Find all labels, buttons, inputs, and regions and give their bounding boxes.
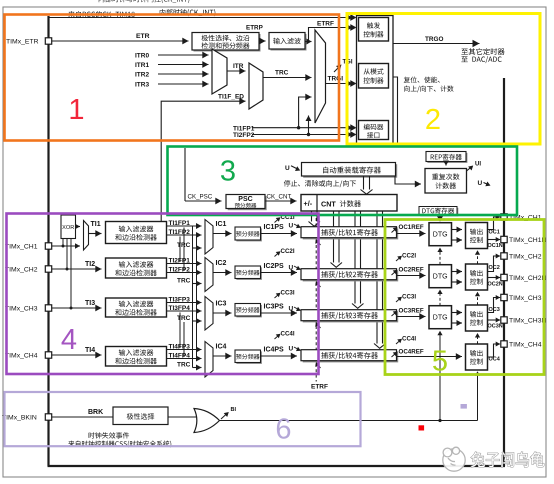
wire TI4FP3 bbox=[167, 349, 202, 351]
block capture/compare register 2 bbox=[303, 270, 399, 281]
wire TI3 from pin bbox=[52, 307, 102, 309]
wire TI2FP2 bbox=[167, 272, 202, 274]
bus CNT to CC3 open arrow bbox=[354, 211, 356, 304]
block encoder interface bbox=[359, 121, 389, 140]
arrows DTG1 to octrl1 bbox=[452, 229, 463, 231]
wire TI2FP2 to encoder bbox=[252, 134, 353, 136]
wire TRC vertical bus bbox=[192, 226, 194, 368]
svg-text:PSC: PSC bbox=[238, 196, 252, 203]
svg-text:U: U bbox=[285, 165, 290, 172]
svg-text:TRC: TRC bbox=[275, 70, 289, 77]
wire TI2 from pin bbox=[52, 268, 102, 270]
wire ITR out bbox=[227, 70, 246, 72]
pin TIMx_CH3 right bbox=[501, 294, 507, 300]
label clock failure bbox=[89, 432, 130, 438]
label stop clear updown bbox=[284, 180, 356, 187]
block output control 3 bbox=[466, 305, 488, 331]
block repetition counter bbox=[425, 169, 467, 194]
svg-text:TI4: TI4 bbox=[85, 347, 95, 354]
svg-text:BRK: BRK bbox=[88, 409, 103, 416]
label TGI bbox=[334, 66, 341, 73]
arrow TI1FP1 into encoder bbox=[350, 124, 356, 131]
svg-text:OC3REF: OC3REF bbox=[399, 308, 424, 315]
wire TI2FP2 riser to TRGI mux bbox=[308, 116, 310, 135]
wire CK_PSC drop bbox=[184, 148, 186, 201]
wire TI4 from pin bbox=[52, 354, 102, 356]
wire ETRP bbox=[259, 40, 266, 42]
svg-text:TIMx_CH1N: TIMx_CH1N bbox=[509, 237, 546, 244]
label CSS source bbox=[68, 440, 171, 447]
wire ITR1 bbox=[158, 64, 209, 66]
mux IC2 select bbox=[205, 258, 213, 292]
svg-text:TIMx_CH3N: TIMx_CH3N bbox=[509, 318, 546, 325]
mux IC3 select bbox=[205, 297, 213, 331]
svg-text:IC1: IC1 bbox=[216, 221, 227, 228]
label 内部时钟(CK_INT) bbox=[160, 9, 216, 16]
svg-text:IC4: IC4 bbox=[216, 344, 227, 351]
block capture/compare register 4 bbox=[303, 351, 399, 362]
svg-text:ITR1: ITR1 bbox=[135, 62, 149, 69]
svg-text:IC2: IC2 bbox=[216, 260, 227, 267]
wire IC3 bbox=[213, 312, 232, 314]
svg-text:5: 5 bbox=[432, 345, 448, 377]
svg-text:TIMx_CH4: TIMx_CH4 bbox=[509, 342, 542, 349]
svg-text:XOR: XOR bbox=[62, 225, 74, 231]
wire CK_CNT bbox=[265, 200, 297, 202]
svg-text:TIMx_CH4: TIMx_CH4 bbox=[5, 353, 38, 360]
svg-text:DTG: DTG bbox=[433, 274, 448, 281]
svg-text:IC4PS: IC4PS bbox=[264, 346, 285, 353]
svg-text:TI2FP2: TI2FP2 bbox=[233, 132, 255, 139]
svg-text:U: U bbox=[478, 180, 483, 187]
bus CNT to CC1 open arrow bbox=[311, 211, 313, 222]
node CK_INT wire from RCC bbox=[49, 17, 353, 19]
svg-text:TRC: TRC bbox=[177, 315, 191, 322]
wire TI2FP1 bbox=[167, 263, 202, 265]
wire CH1 to mux bbox=[52, 245, 80, 247]
wire BI to DTG column bbox=[439, 334, 441, 421]
wire ETRF up to trigger ctrl bbox=[305, 28, 353, 42]
svg-text:ETR: ETR bbox=[136, 33, 150, 40]
wire OC4REF bbox=[397, 356, 463, 358]
pin TIMx_CH4 bbox=[45, 352, 51, 358]
svg-text:OC2: OC2 bbox=[489, 265, 500, 271]
svg-text:3: 3 bbox=[220, 155, 236, 187]
mux TRGI select bbox=[315, 30, 326, 123]
block input filter TI3 bbox=[106, 298, 167, 317]
mux ITR select bbox=[212, 49, 227, 94]
wire FP crossover row3-4 bbox=[179, 313, 181, 349]
arrow TRGI into slave controller bbox=[350, 80, 356, 87]
svg-text:ITR: ITR bbox=[233, 63, 244, 70]
block prescaler IC2 bbox=[236, 267, 262, 280]
block XOR bbox=[61, 215, 76, 239]
red mark bbox=[419, 425, 425, 430]
pin TIMx_CH4 right bbox=[501, 341, 507, 347]
wire IC4 bbox=[213, 355, 232, 357]
svg-text:CC3I: CC3I bbox=[281, 290, 295, 297]
arrows DTG3 to octrl3 bbox=[452, 312, 463, 314]
wire IC2 bbox=[213, 272, 232, 274]
region box 4 purple bbox=[7, 214, 319, 375]
wire TI1FP1 bbox=[167, 225, 202, 227]
svg-text:TIMx_CH3: TIMx_CH3 bbox=[5, 306, 38, 313]
arrow compare event 2 bbox=[317, 283, 321, 288]
wire - left pin rail bbox=[47, 16, 49, 466]
wire IC1 bbox=[213, 233, 232, 235]
svg-text:OC1: OC1 bbox=[489, 230, 500, 236]
wire TI1FP2 bbox=[167, 234, 202, 236]
svg-text:TIMx_CH2: TIMx_CH2 bbox=[5, 267, 38, 274]
block CNT counter bbox=[301, 195, 397, 212]
block prescaler IC1 bbox=[236, 228, 262, 241]
wire OC4 bbox=[488, 344, 501, 357]
block DTG3 bbox=[429, 306, 452, 329]
svg-text:IC2PS: IC2PS bbox=[264, 263, 285, 270]
block PSC prescaler bbox=[228, 196, 267, 210]
svg-text:DTG: DTG bbox=[433, 315, 448, 322]
block input filter TI1 bbox=[106, 222, 167, 244]
wire REP down bbox=[445, 162, 447, 166]
gate OR break bbox=[194, 409, 220, 433]
svg-text:TI2: TI2 bbox=[85, 261, 95, 268]
svg-text:TIMx_ETR: TIMx_ETR bbox=[6, 39, 39, 46]
svg-text:ITR2: ITR2 bbox=[135, 72, 149, 79]
clipped top caption bbox=[99, 0, 190, 3]
svg-text:TIMx_CH3: TIMx_CH3 bbox=[509, 295, 542, 302]
svg-text:ETRP: ETRP bbox=[246, 25, 263, 32]
arrow compare event 1 bbox=[317, 241, 321, 246]
wire IC2PS bbox=[261, 272, 298, 274]
region box 6 lavender bbox=[5, 392, 361, 446]
svg-text:IC3: IC3 bbox=[216, 301, 227, 308]
svg-text:OC3N: OC3N bbox=[488, 324, 503, 330]
lavender mark bbox=[461, 404, 467, 409]
wire OC3 bbox=[488, 298, 501, 313]
pin TIMx_CH2 right bbox=[501, 253, 507, 259]
wire OC1N bbox=[488, 239, 501, 241]
wire ETRF dashed drop bbox=[315, 218, 317, 382]
svg-text:DTG: DTG bbox=[433, 232, 448, 239]
svg-text:OC2REF: OC2REF bbox=[399, 267, 424, 274]
mux TRC select bbox=[249, 63, 263, 109]
block trigger controller bbox=[359, 18, 389, 42]
svg-text:ETRF: ETRF bbox=[311, 384, 328, 391]
block input filter TI2 bbox=[106, 258, 167, 278]
svg-text:1: 1 bbox=[68, 94, 84, 126]
wire - bottom border bbox=[48, 465, 506, 467]
block prescaler IC3 bbox=[236, 305, 262, 318]
svg-text:UI: UI bbox=[475, 162, 481, 168]
svg-text:TRGO: TRGO bbox=[425, 36, 443, 43]
mux IC1 select bbox=[205, 220, 213, 255]
wire IC4PS bbox=[261, 355, 298, 357]
wire TI3FP4 bbox=[167, 310, 202, 312]
svg-text:CK_CNT: CK_CNT bbox=[267, 194, 292, 201]
arrows DTG2 to octrl2 bbox=[452, 271, 463, 273]
block output control 2 bbox=[466, 264, 488, 290]
wire FP vertical bus bbox=[196, 235, 198, 359]
arrow TI2FP2 into encoder bbox=[350, 131, 356, 138]
svg-text:CC4I: CC4I bbox=[281, 331, 295, 338]
svg-text:OC1N: OC1N bbox=[488, 243, 503, 249]
block input filter ETR bbox=[271, 34, 307, 51]
svg-text:TIMx_CH2: TIMx_CH2 bbox=[509, 254, 542, 261]
svg-text:CC2I: CC2I bbox=[281, 248, 295, 255]
block output control 1 bbox=[466, 223, 488, 249]
wire XOR out bbox=[76, 226, 81, 228]
pin TIMx_CH2N right bbox=[501, 274, 507, 280]
block DTG1 bbox=[429, 223, 452, 246]
wire OC2N bbox=[488, 277, 501, 279]
wire TI1 bbox=[89, 233, 102, 235]
block DTG register bbox=[420, 208, 458, 217]
svg-text:OC4REF: OC4REF bbox=[399, 349, 424, 356]
wire OC2 bbox=[488, 256, 501, 272]
svg-text:OC3: OC3 bbox=[489, 307, 500, 313]
controller column bbox=[357, 16, 394, 144]
wire ARR to repetition counter bbox=[395, 176, 421, 185]
wire ITR3 bbox=[158, 83, 209, 85]
wire TRGI to slave ctrl bbox=[326, 83, 353, 85]
svg-text:TIMx_CH2N: TIMx_CH2N bbox=[509, 275, 546, 282]
wire TI1FP1 to encoder bbox=[252, 127, 353, 129]
wire IC1PS bbox=[261, 233, 298, 235]
svg-text:OC2N: OC2N bbox=[488, 281, 503, 287]
label to other timers bbox=[461, 48, 504, 55]
wire OC1REF bbox=[397, 233, 426, 235]
label reset enable updown bbox=[404, 77, 440, 83]
pin TIMx_ETR bbox=[45, 38, 51, 44]
wire CK_PSC bbox=[185, 200, 222, 202]
wire slave ctrl bracket bbox=[393, 77, 398, 144]
svg-text:ITR3: ITR3 bbox=[135, 82, 149, 89]
svg-text:CK_PSC: CK_PSC bbox=[188, 194, 213, 201]
wire OC1 bbox=[488, 217, 501, 230]
block auto-reload register bbox=[303, 164, 397, 178]
svg-text:U: U bbox=[289, 306, 294, 313]
svg-text:TRGI: TRGI bbox=[328, 76, 344, 83]
wire TI1F_ED bbox=[161, 101, 245, 221]
block capture/compare register 1 bbox=[303, 228, 399, 239]
wire BRK bbox=[52, 416, 113, 418]
arrow CK_INT into trigger controller bbox=[350, 14, 356, 21]
svg-text:TIMx_BKIN: TIMx_BKIN bbox=[2, 415, 37, 422]
svg-text:2: 2 bbox=[425, 104, 441, 136]
wire OC2REF bbox=[397, 275, 426, 277]
svg-text:CNT: CNT bbox=[321, 199, 336, 208]
block output control 4 bbox=[466, 344, 488, 370]
block REP register bbox=[427, 153, 467, 163]
svg-text:OC1REF: OC1REF bbox=[399, 224, 424, 231]
block polarity/edge detector bbox=[194, 34, 261, 52]
pin TIMx_CH3N right bbox=[501, 317, 507, 323]
wire TI3FP3 bbox=[167, 302, 202, 304]
watermark text bbox=[471, 452, 544, 467]
pin TIMx_CH1 bbox=[45, 243, 51, 249]
pin TIMx_CH1 right bbox=[501, 214, 507, 220]
mux TI1 select bbox=[84, 221, 89, 251]
wire OC3REF bbox=[397, 316, 426, 318]
arrow compare event 3 bbox=[317, 324, 321, 329]
mux IC4 select bbox=[205, 342, 213, 378]
wire TRGO bbox=[393, 43, 480, 45]
wire TRC row2 bbox=[193, 283, 202, 285]
wire BI bus bbox=[220, 420, 478, 422]
bus CNT to CC2 open arrow bbox=[333, 211, 335, 263]
label UI event bbox=[467, 167, 472, 171]
watermark logo bbox=[443, 447, 465, 471]
wire TRC row3 bbox=[193, 320, 202, 322]
pin TIMx_CH1N right bbox=[501, 236, 507, 242]
svg-text:TRC: TRC bbox=[177, 362, 191, 369]
block DTG2 bbox=[429, 265, 452, 288]
dashed octrl column links bbox=[477, 253, 479, 265]
wire - right pin rail bbox=[503, 78, 505, 466]
block prescaler IC4 bbox=[236, 351, 262, 364]
pin TIMx_CH2 bbox=[45, 266, 51, 272]
label BI bbox=[221, 414, 227, 420]
svg-text:U: U bbox=[289, 346, 294, 353]
wire to OR gate bbox=[168, 416, 196, 418]
svg-text:ETRF: ETRF bbox=[317, 21, 334, 28]
svg-text:IC3PS: IC3PS bbox=[264, 303, 285, 310]
svg-text:+/-: +/- bbox=[304, 199, 313, 208]
arrow ETRF into trigger controller bbox=[350, 24, 356, 31]
wire DTG register down bbox=[439, 215, 441, 221]
svg-text:6: 6 bbox=[275, 414, 291, 446]
svg-text:TI3: TI3 bbox=[85, 300, 95, 307]
arrow compare event 4 bbox=[317, 364, 321, 369]
bus CNT to CC4 open arrow bbox=[376, 211, 378, 344]
wire ITR0 bbox=[158, 54, 209, 56]
svg-text:TRC: TRC bbox=[177, 278, 191, 285]
svg-text:IC1PS: IC1PS bbox=[264, 224, 285, 231]
label to DAC/ADC bbox=[461, 56, 501, 63]
svg-text:U: U bbox=[289, 265, 294, 272]
svg-text:CC4I: CC4I bbox=[402, 336, 416, 343]
region box 3 green bbox=[168, 147, 518, 216]
wire TRC row4 bbox=[193, 367, 202, 369]
wire FP crossover row1-2 bbox=[179, 237, 181, 263]
wire XOR taps bbox=[62, 239, 64, 247]
region box 5 yellow-green bbox=[385, 220, 544, 375]
wire BI to octrl column bbox=[477, 373, 479, 421]
block polarity select BRK bbox=[113, 407, 168, 425]
svg-text:CC3I: CC3I bbox=[402, 294, 416, 301]
wire TI1FP1 riser to TRGI mux bbox=[299, 97, 312, 128]
wire IC3PS bbox=[261, 312, 298, 314]
svg-text:BI: BI bbox=[231, 407, 237, 413]
wire OC3N bbox=[488, 319, 501, 321]
wire ETR bbox=[52, 40, 189, 42]
svg-text:ITR0: ITR0 bbox=[135, 53, 149, 60]
wire TI4FP4 bbox=[167, 358, 202, 360]
svg-text:U: U bbox=[289, 223, 294, 230]
block input filter TI4 bbox=[106, 347, 167, 367]
region box 1 orange bbox=[5, 15, 340, 141]
svg-text:OC4: OC4 bbox=[489, 357, 501, 363]
svg-text:TIMx_CH1: TIMx_CH1 bbox=[5, 244, 38, 251]
svg-text:CC2I: CC2I bbox=[402, 253, 416, 260]
wire ITR2 bbox=[158, 73, 209, 75]
pin TIMx_BKIN bbox=[45, 414, 51, 420]
svg-text:TI1: TI1 bbox=[91, 221, 101, 228]
dashed DTG column links bbox=[439, 251, 441, 265]
label 来自RCC的CK_TIM18 bbox=[68, 11, 134, 18]
wire TRC row1 bbox=[193, 247, 202, 249]
block capture/compare register 3 bbox=[303, 311, 399, 322]
region box 2 yellow bbox=[347, 14, 540, 145]
pin TIMx_CH3 bbox=[45, 305, 51, 311]
svg-text:4: 4 bbox=[61, 324, 77, 356]
wire TRC to TRGI mux bbox=[263, 77, 312, 79]
bus ARR to CNT open arrow bbox=[363, 176, 365, 190]
wire ETRF into TRGI mux bbox=[309, 41, 312, 43]
block slave mode controller bbox=[359, 64, 389, 89]
